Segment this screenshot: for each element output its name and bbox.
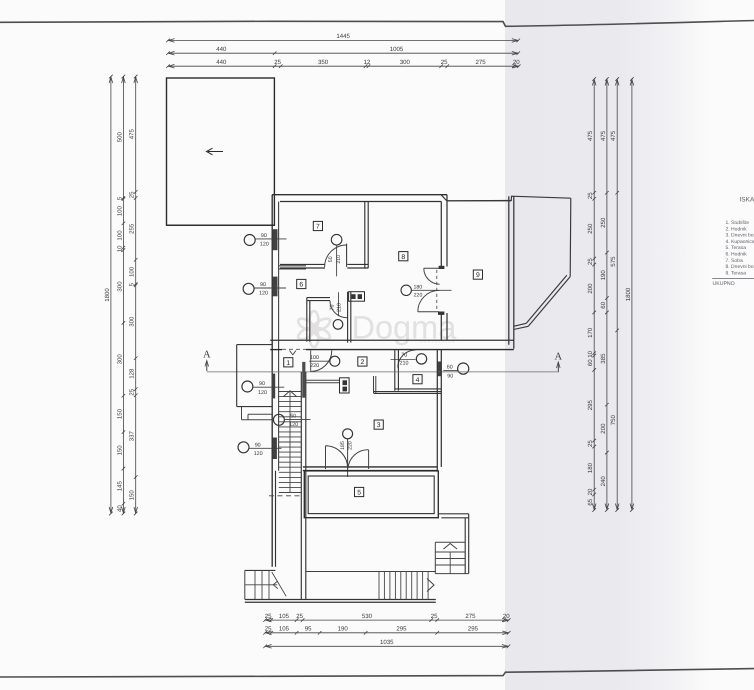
svg-text:65: 65 bbox=[587, 498, 594, 505]
section line bbox=[207, 371, 558, 373]
watermark Dogma logo bbox=[296, 310, 457, 347]
room 5 label bbox=[355, 487, 364, 496]
kitchen partition bbox=[306, 380, 340, 383]
terrace outline bbox=[304, 471, 438, 518]
door 100/220 label bbox=[309, 355, 330, 369]
svg-text:150: 150 bbox=[116, 445, 123, 456]
right stairs block bbox=[435, 542, 468, 573]
svg-text:120: 120 bbox=[254, 451, 263, 457]
sw step wall bbox=[245, 569, 276, 571]
svg-text:300: 300 bbox=[400, 59, 411, 66]
svg-text:20: 20 bbox=[587, 488, 594, 495]
left dim chain inner bbox=[129, 75, 138, 516]
svg-text:240: 240 bbox=[600, 476, 607, 487]
interior wall stub y267 bbox=[279, 266, 306, 269]
svg-text:5. Terasa: 5. Terasa bbox=[726, 245, 747, 251]
bathroom door size 70/210 bbox=[330, 303, 343, 312]
right dim chain 1 bbox=[587, 77, 596, 512]
corridor wall upper bbox=[270, 339, 514, 341]
svg-text:200: 200 bbox=[600, 423, 607, 434]
svg-text:25: 25 bbox=[274, 59, 281, 66]
room 3 door size 185/220 bbox=[340, 441, 353, 450]
room 2 label bbox=[358, 357, 367, 366]
svg-text:25: 25 bbox=[587, 192, 594, 199]
left dim chain outer 1800 bbox=[104, 75, 113, 516]
svg-text:100: 100 bbox=[129, 266, 136, 277]
room 7 south wall bbox=[280, 264, 368, 268]
svg-text:20: 20 bbox=[513, 59, 520, 66]
top dim row 440-1005 bbox=[166, 46, 520, 55]
svg-text:1445: 1445 bbox=[336, 33, 350, 40]
room 8 east wall bbox=[441, 195, 447, 341]
svg-text:9: 9 bbox=[476, 272, 480, 279]
right dim chain 4 total bbox=[625, 77, 634, 512]
svg-text:25: 25 bbox=[587, 258, 594, 265]
bottom stairs block bbox=[306, 572, 436, 600]
svg-text:1800: 1800 bbox=[104, 288, 111, 302]
svg-text:180: 180 bbox=[413, 285, 422, 291]
room 9 bottom edge bbox=[514, 323, 529, 329]
room 8 door circle bbox=[401, 285, 411, 295]
svg-text:2. Hodnik: 2. Hodnik bbox=[726, 226, 748, 232]
svg-text:40: 40 bbox=[116, 505, 123, 512]
svg-text:90: 90 bbox=[259, 381, 265, 387]
room 1 label bbox=[284, 358, 293, 367]
west wall lower part bbox=[275, 471, 277, 567]
svg-text:8. Dnevni boravak: 8. Dnevni boravak bbox=[726, 264, 754, 270]
door 70/210 label room4 bbox=[391, 352, 416, 366]
svg-text:25: 25 bbox=[441, 59, 448, 66]
svg-text:530: 530 bbox=[362, 613, 373, 620]
room 2/4 divider wall bbox=[395, 349, 399, 390]
room 7 label bbox=[313, 221, 322, 230]
svg-text:25: 25 bbox=[431, 613, 438, 620]
svg-text:70: 70 bbox=[401, 352, 407, 358]
svg-text:210: 210 bbox=[336, 255, 342, 264]
stairs dashed cut bbox=[269, 495, 301, 497]
svg-text:295: 295 bbox=[396, 626, 407, 633]
bay steps bbox=[242, 407, 273, 420]
svg-text:475: 475 bbox=[129, 129, 136, 140]
window W2 90/120 bbox=[243, 282, 286, 297]
svg-text:300: 300 bbox=[116, 354, 123, 365]
top dim row detail bbox=[166, 59, 520, 68]
svg-text:250: 250 bbox=[587, 223, 594, 234]
top dim row 1445 bbox=[166, 33, 520, 42]
boiler box bbox=[340, 378, 350, 393]
svg-text:A: A bbox=[203, 350, 211, 361]
room 7 door size 50/210 bbox=[328, 255, 342, 264]
svg-text:300: 300 bbox=[116, 281, 123, 292]
svg-text:60: 60 bbox=[587, 359, 594, 366]
corridor wall lower bbox=[270, 349, 514, 351]
svg-text:300: 300 bbox=[129, 316, 136, 327]
west wall inner bbox=[278, 202, 280, 471]
svg-text:220: 220 bbox=[414, 293, 423, 299]
svg-text:3: 3 bbox=[377, 422, 381, 429]
svg-text:337: 337 bbox=[129, 431, 136, 442]
svg-text:A: A bbox=[555, 352, 563, 363]
door 70/210 arc room4 bbox=[398, 350, 416, 368]
svg-text:1. Stubište: 1. Stubište bbox=[726, 220, 750, 226]
svg-text:4: 4 bbox=[416, 377, 420, 384]
left dim chain middle bbox=[116, 75, 125, 516]
svg-text:350: 350 bbox=[318, 59, 329, 66]
svg-text:500: 500 bbox=[116, 132, 123, 143]
svg-text:90: 90 bbox=[261, 233, 267, 239]
window W1 90/120 bbox=[244, 233, 286, 248]
svg-text:90: 90 bbox=[255, 442, 261, 448]
svg-text:275: 275 bbox=[465, 613, 476, 620]
window hatch 4 bbox=[273, 438, 277, 460]
room 3 south wall bbox=[303, 467, 437, 471]
svg-text:50: 50 bbox=[290, 413, 296, 419]
window W5 50/120 bbox=[273, 413, 310, 428]
electric box bbox=[349, 292, 365, 302]
svg-text:7: 7 bbox=[316, 224, 320, 231]
stairs bbox=[279, 391, 301, 493]
room 3 east wall bbox=[437, 349, 441, 470]
svg-text:105: 105 bbox=[279, 613, 290, 620]
section marker A left bbox=[203, 350, 211, 372]
room 9 top edge bbox=[447, 200, 512, 202]
room 3 double door bbox=[326, 439, 369, 477]
svg-text:475: 475 bbox=[610, 130, 617, 141]
room 9 diagonal bbox=[526, 275, 570, 326]
svg-text:60: 60 bbox=[447, 364, 453, 370]
window hatch 2 bbox=[273, 277, 278, 297]
svg-text:9. Terasa: 9. Terasa bbox=[726, 270, 747, 276]
svg-text:295: 295 bbox=[468, 626, 479, 633]
door 100/220 circle bbox=[330, 356, 340, 366]
bathroom door arc bbox=[330, 301, 347, 318]
room 8 door dashed projection bbox=[437, 266, 445, 315]
window 60/90 hatch bbox=[437, 362, 441, 377]
bottom border line bbox=[0, 669, 754, 677]
svg-text:475: 475 bbox=[587, 130, 594, 141]
svg-text:25: 25 bbox=[265, 613, 272, 620]
svg-text:295: 295 bbox=[587, 400, 594, 411]
door 70/210 circle room4 bbox=[416, 354, 426, 364]
svg-text:6. Hodnik: 6. Hodnik bbox=[726, 252, 748, 258]
top border line bbox=[0, 21, 754, 27]
section marker A right bbox=[555, 352, 563, 373]
svg-text:60: 60 bbox=[600, 301, 607, 308]
svg-text:275: 275 bbox=[476, 59, 487, 66]
svg-text:90: 90 bbox=[447, 373, 453, 379]
page seam grey band bbox=[505, 0, 710, 690]
svg-text:180: 180 bbox=[587, 462, 594, 473]
svg-text:120: 120 bbox=[289, 422, 298, 428]
svg-text:1005: 1005 bbox=[390, 46, 404, 53]
svg-text:575: 575 bbox=[610, 256, 617, 267]
svg-text:150: 150 bbox=[116, 408, 123, 419]
svg-text:25: 25 bbox=[587, 440, 594, 447]
right dim chain 2 bbox=[600, 77, 609, 512]
garage outline bbox=[167, 78, 275, 225]
svg-text:120: 120 bbox=[260, 242, 269, 248]
room 9 top wall bbox=[441, 195, 571, 201]
svg-text:4. Kupaonica: 4. Kupaonica bbox=[726, 239, 754, 245]
room 7 divider wall bbox=[365, 202, 368, 269]
bottom wall bbox=[245, 600, 436, 603]
svg-text:385: 385 bbox=[600, 353, 607, 364]
window W4 90/120 bbox=[238, 442, 282, 457]
svg-text:100: 100 bbox=[310, 355, 319, 361]
room 3 label bbox=[374, 420, 383, 429]
svg-text:210: 210 bbox=[337, 303, 343, 312]
svg-text:220: 220 bbox=[310, 363, 319, 369]
room 7 door arc bbox=[325, 245, 347, 267]
svg-text:1035: 1035 bbox=[380, 639, 394, 646]
window 60/90 label bbox=[443, 364, 458, 379]
svg-text:190: 190 bbox=[600, 270, 607, 281]
svg-text:UKUPNO: UKUPNO bbox=[713, 281, 735, 287]
svg-text:25: 25 bbox=[129, 191, 136, 198]
room 8 label bbox=[399, 252, 408, 261]
svg-text:1800: 1800 bbox=[625, 287, 632, 301]
svg-text:750: 750 bbox=[610, 415, 617, 426]
svg-text:90: 90 bbox=[260, 282, 266, 288]
svg-text:5: 5 bbox=[357, 490, 361, 497]
toilet bbox=[333, 320, 343, 330]
window W3 90/120 bbox=[242, 381, 284, 396]
duct nook bbox=[374, 376, 442, 393]
room 8 door label 180/220 bbox=[411, 285, 451, 299]
room 9 label bbox=[473, 270, 482, 279]
room1 dashed opening bbox=[282, 348, 306, 350]
svg-text:6: 6 bbox=[299, 282, 303, 289]
door 100/220 arc bbox=[311, 350, 332, 371]
legend text (cut off) bbox=[712, 196, 754, 288]
svg-text:190: 190 bbox=[338, 626, 349, 633]
sw stairs block bbox=[245, 570, 286, 599]
svg-text:128: 128 bbox=[129, 368, 136, 379]
svg-text:50: 50 bbox=[328, 256, 334, 262]
svg-text:ISKAZ POVRŠINA: ISKAZ POVRŠINA bbox=[740, 196, 754, 204]
top wall outer bbox=[272, 194, 447, 196]
svg-text:475: 475 bbox=[600, 130, 607, 141]
bottom dim row mid bbox=[263, 626, 510, 635]
svg-text:20: 20 bbox=[503, 613, 510, 620]
svg-text:200: 200 bbox=[587, 283, 594, 294]
svg-text:95: 95 bbox=[305, 626, 312, 633]
svg-text:210: 210 bbox=[400, 361, 409, 367]
svg-text:25: 25 bbox=[296, 613, 303, 620]
svg-text:25: 25 bbox=[129, 388, 136, 395]
bay outline bbox=[237, 345, 272, 407]
window 60/90 circle bbox=[458, 363, 469, 374]
svg-text:25: 25 bbox=[265, 626, 272, 633]
room 4 label bbox=[413, 375, 422, 384]
se landing walls bbox=[438, 514, 468, 574]
west wall outer bbox=[271, 195, 273, 567]
svg-text:120: 120 bbox=[259, 291, 268, 297]
svg-text:70: 70 bbox=[330, 305, 336, 311]
bathroom north wall bbox=[307, 298, 330, 301]
svg-text:170: 170 bbox=[587, 327, 594, 338]
svg-text:185: 185 bbox=[340, 441, 346, 450]
room 9 right wall bbox=[569, 198, 572, 276]
sw diagonal none bbox=[0, 0, 1, 1]
garage bottom wall bbox=[167, 224, 275, 226]
room 6 label bbox=[297, 279, 306, 288]
svg-text:440: 440 bbox=[216, 59, 227, 66]
room 8 double door arcs bbox=[418, 268, 440, 312]
stair east wall bbox=[301, 372, 306, 599]
bathroom west wall bbox=[307, 298, 310, 342]
garage arrow bbox=[207, 148, 224, 155]
room 7 door leaf bbox=[337, 244, 347, 277]
svg-text:220: 220 bbox=[347, 441, 353, 450]
bottom dim row total 1035 bbox=[263, 639, 510, 648]
svg-text:1: 1 bbox=[286, 360, 290, 367]
svg-text:100: 100 bbox=[116, 230, 123, 241]
svg-text:150: 150 bbox=[129, 490, 136, 501]
svg-text:255: 255 bbox=[129, 223, 136, 234]
top wall inner bbox=[280, 201, 441, 203]
room 3 door circle bbox=[343, 429, 353, 439]
bathroom east wall bbox=[348, 292, 351, 343]
window hatch 3 (bay) bbox=[272, 374, 275, 399]
bottom dim row detail bbox=[263, 613, 510, 622]
svg-text:2: 2 bbox=[361, 359, 365, 366]
svg-text:120: 120 bbox=[258, 390, 267, 396]
svg-text:3. Dnevni boravak: 3. Dnevni boravak bbox=[726, 233, 754, 239]
east wall of house bbox=[509, 196, 514, 349]
stair wall window hatch bbox=[302, 362, 305, 398]
svg-text:7. Soba: 7. Soba bbox=[726, 258, 743, 264]
room 7 door circle bbox=[331, 234, 342, 245]
svg-text:145: 145 bbox=[116, 481, 123, 492]
svg-text:440: 440 bbox=[216, 46, 227, 53]
right dim chain 3 bbox=[610, 77, 619, 512]
svg-text:100: 100 bbox=[116, 206, 123, 217]
svg-text:105: 105 bbox=[279, 626, 290, 633]
svg-text:8: 8 bbox=[401, 254, 405, 261]
bathroom door leaf bbox=[338, 292, 340, 316]
svg-text:250: 250 bbox=[600, 217, 607, 228]
small chevron room2 bbox=[290, 351, 297, 355]
window hatch 1 bbox=[273, 229, 278, 250]
